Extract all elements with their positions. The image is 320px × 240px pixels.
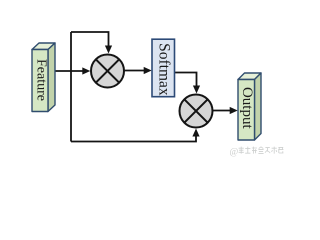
svg-text:Softmax: Softmax — [155, 43, 172, 96]
svg-text:@: @ — [230, 148, 239, 158]
svg-text:Feature: Feature — [33, 59, 48, 101]
svg-text:Output: Output — [239, 87, 255, 130]
